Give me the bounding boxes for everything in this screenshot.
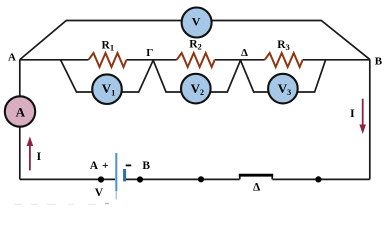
svg-text:+: + [102, 160, 109, 172]
svg-text:V: V [192, 15, 201, 29]
svg-text:A: A [8, 52, 16, 64]
svg-text:Δ: Δ [241, 47, 248, 59]
svg-text:B: B [375, 56, 383, 68]
svg-text:I: I [37, 149, 42, 163]
svg-text:A: A [90, 160, 99, 172]
svg-text:A: A [16, 104, 26, 119]
svg-text:Δ: Δ [253, 182, 261, 194]
svg-text:Γ: Γ [146, 47, 153, 59]
svg-text:V: V [95, 187, 104, 199]
svg-text:I: I [350, 106, 355, 120]
svg-text:B: B [142, 160, 150, 172]
